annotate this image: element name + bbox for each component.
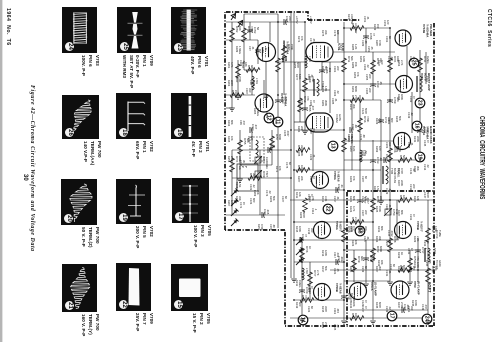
C157 label: [239, 160, 246, 167]
C197 label: [409, 56, 416, 63]
svg-text:68K: 68K: [380, 226, 384, 231]
C119 label: [333, 308, 340, 315]
wire horizontal y318: [290, 317, 430, 319]
resistor R746: [300, 246, 313, 262]
waveform callout 12: [264, 113, 274, 123]
R353 label: [353, 72, 360, 79]
R303 label: [349, 176, 356, 183]
svg-text:.01: .01: [334, 98, 338, 102]
svg-text:.05: .05: [412, 56, 416, 60]
svg-text:270K: 270K: [238, 76, 242, 82]
svg-text:3300: 3300: [324, 306, 328, 312]
C169 label: [265, 112, 272, 119]
svg-text:390K: 390K: [324, 100, 328, 106]
R209 label: [299, 212, 306, 219]
R301 label: [395, 146, 402, 153]
waveform photo 17: V705 PIN 3: [172, 178, 209, 223]
junction dot 10: [427, 269, 429, 271]
waveform photo 20: PW 700 TERM.(Z): [61, 179, 97, 225]
tube V706B half 6GY7 B-Y amp: [395, 222, 412, 239]
svg-text:270K: 270K: [400, 302, 404, 308]
svg-text:120: 120: [378, 146, 382, 151]
wire vertical x232 lower: [231, 150, 233, 215]
svg-text:220: 220: [336, 66, 340, 71]
diode CR706 AFPC det: [231, 209, 239, 217]
svg-text:Y: Y: [244, 166, 248, 168]
R231 label: [377, 226, 384, 233]
svg-text:6JU8: 6JU8: [341, 43, 345, 51]
R273 label: [297, 36, 304, 43]
C111 label: [309, 176, 316, 182]
svg-text:1.5K: 1.5K: [238, 182, 242, 188]
C143 label: [407, 248, 414, 255]
resistor R706: [276, 56, 289, 72]
junction dot 17: [293, 299, 295, 301]
C255 label: [365, 74, 372, 81]
R307 label: [397, 180, 404, 187]
R277 label: [295, 74, 302, 81]
R221 label: [349, 196, 356, 203]
R279 label: [297, 100, 304, 107]
wire vertical x407 T5-T6: [406, 46, 408, 76]
junction dot 16: [419, 159, 421, 161]
ground at x428: [425, 321, 431, 324]
svg-text:.01: .01: [388, 270, 392, 274]
wire horizontal y281: [344, 280, 390, 282]
svg-text:1MEG: 1MEG: [298, 280, 302, 287]
R263 label: [227, 80, 234, 87]
label V702B type: [280, 93, 288, 107]
resistor R761: [230, 90, 244, 97]
R192 label: [227, 120, 234, 127]
svg-text:10K: 10K: [354, 313, 358, 318]
waveform callout 17: [387, 311, 397, 321]
svg-text:680K: 680K: [354, 86, 358, 92]
waveform photo 25: V709 PIN 1: [117, 7, 151, 53]
C229 label: [385, 204, 392, 211]
svg-text:82K: 82K: [352, 196, 356, 201]
pot R729 tint control: [254, 170, 269, 178]
waveform callout 19: [415, 152, 425, 162]
svg-text:½ 6EA8: ½ 6EA8: [338, 283, 342, 294]
svg-text:.005: .005: [284, 56, 288, 62]
R189 label: [235, 46, 242, 54]
resistor R709: [303, 76, 316, 92]
wire horizontal y200: [290, 199, 433, 201]
C129 label: [361, 300, 368, 307]
resistor R767: [350, 23, 364, 34]
waveform callout 16: [412, 121, 422, 131]
tube V709 6GU7 R-Y amplifier: [391, 281, 409, 299]
svg-text:27K: 27K: [354, 95, 358, 100]
capacitor C713: [370, 157, 383, 164]
svg-text:56K: 56K: [272, 196, 276, 201]
C243 label: [409, 266, 416, 273]
wire vertical x381: [380, 100, 382, 200]
wire horizontal y122: [294, 121, 306, 123]
wire vertical x300: [299, 62, 301, 122]
wire bus vertical 2: [293, 13, 295, 278]
svg-text:220: 220: [412, 184, 416, 189]
svg-text:.02: .02: [336, 324, 340, 328]
capacitor C709: [387, 97, 400, 104]
svg-text:220: 220: [368, 74, 372, 79]
svg-text:47K: 47K: [352, 176, 356, 181]
R333 label: [375, 236, 382, 243]
svg-text:2.2K: 2.2K: [354, 217, 358, 223]
R321 label: [321, 322, 328, 329]
ground at x240: [237, 179, 243, 182]
wire horizontal y170: [294, 169, 381, 171]
svg-text:.047: .047: [390, 56, 394, 62]
svg-text:1.8K: 1.8K: [324, 86, 328, 92]
svg-text:.05: .05: [428, 260, 432, 264]
wire vertical x264 T2 plate: [263, 80, 265, 94]
svg-text:.01: .01: [366, 236, 370, 240]
label V702A type: [282, 41, 290, 55]
svg-text:.01: .01: [366, 16, 370, 20]
svg-text:8200: 8200: [302, 212, 306, 218]
C239 label: [361, 266, 368, 273]
svg-text:12K: 12K: [352, 266, 356, 271]
R237 label: [397, 168, 404, 175]
resistor R714: [342, 136, 355, 152]
svg-text:120: 120: [284, 97, 288, 102]
svg-text:.05: .05: [426, 240, 430, 244]
svg-text:47: 47: [304, 234, 308, 237]
wire horizontal y60 mid: [322, 61, 344, 63]
R327 label: [397, 210, 404, 217]
svg-text:120K: 120K: [324, 250, 328, 256]
junction dot 13: [304, 21, 306, 23]
C175 label: [285, 162, 292, 169]
svg-text:+275V: +275V: [295, 16, 299, 24]
wire vertical x338: [337, 30, 339, 43]
R196 label: [235, 182, 242, 189]
wire vertical x310 low: [309, 262, 311, 300]
wire vertical x270 T1 plate: [269, 22, 271, 42]
C165 label: [239, 60, 246, 67]
svg-text:120K: 120K: [362, 56, 366, 62]
svg-text:(R-Y) AMP: (R-Y) AMP: [416, 281, 420, 295]
svg-text:470: 470: [304, 295, 308, 300]
svg-text:.02: .02: [310, 74, 314, 78]
ground at V702A cathode: [263, 96, 269, 99]
svg-text:½ 6GH8A: ½ 6GH8A: [426, 24, 430, 38]
C193 label: [363, 64, 370, 71]
R203 label: [269, 196, 276, 203]
dash-dot shield border right side: [433, 23, 435, 326]
tube V708A half 6EA8 color killer: [312, 172, 329, 189]
C249 label: [385, 306, 392, 313]
svg-text:220K: 220K: [416, 136, 420, 142]
svg-text:L704: L704: [305, 268, 309, 274]
wire horizontal y62: [275, 61, 306, 63]
C209 label: [385, 188, 392, 195]
svg-text:3.9K 2W: 3.9K 2W: [354, 23, 358, 34]
svg-text:27K: 27K: [230, 156, 234, 161]
svg-text:.05: .05: [364, 40, 368, 44]
waveform photo 15: V705 PIN 2: [171, 264, 208, 311]
capacitor C707: [357, 197, 370, 204]
resistor R749: [352, 256, 365, 272]
coil L705 slug inside dashed box: [256, 140, 258, 158]
ground at R702: [229, 108, 235, 111]
C171 label: [239, 202, 246, 209]
svg-text:1MEG: 1MEG: [426, 56, 430, 64]
wire vertical x266 T1 cathode: [265, 62, 267, 95]
C163 label: [333, 90, 340, 97]
junction dot 24: [293, 239, 295, 241]
C213 label: [423, 164, 430, 171]
R257 label: [321, 66, 328, 73]
capacitor C703: [275, 97, 288, 104]
junction dot 7: [389, 199, 391, 201]
waveform callout 18: [355, 226, 365, 236]
C159 label: [281, 56, 288, 63]
wire horizontal y22: [226, 21, 305, 23]
svg-text:680: 680: [252, 198, 256, 203]
svg-text:.22: .22: [379, 157, 383, 161]
ground at x390: [387, 282, 393, 285]
svg-text:47K: 47K: [356, 72, 360, 77]
resistor R756: [398, 195, 412, 202]
wire vertical x302 low: [301, 238, 303, 318]
svg-text:TUBE: TUBE: [438, 230, 442, 237]
ground at C705: [302, 131, 308, 134]
coil L701 chroma take-off: [252, 76, 259, 90]
C177 label: [309, 38, 316, 45]
svg-text:V701: V701: [337, 43, 341, 51]
resistor R703: [242, 26, 255, 42]
R311 label: [295, 192, 302, 199]
waveform photo 16: V701 PIN 2: [171, 93, 207, 139]
junction dot 27: [389, 159, 391, 161]
dash-dot shield border bottom: [285, 230, 433, 326]
svg-text:1.2K: 1.2K: [354, 44, 358, 50]
svg-text:33K: 33K: [238, 196, 242, 201]
diode CR703 killer det: [296, 258, 304, 266]
svg-text:.015: .015: [266, 209, 270, 215]
R299 label: [375, 146, 382, 153]
ground at x381: [378, 201, 384, 204]
resistor R747: [308, 270, 321, 286]
svg-text:.02: .02: [388, 240, 392, 244]
pot R720 chroma control: [254, 156, 269, 169]
R243 label: [413, 196, 420, 203]
R271 label: [275, 166, 282, 173]
svg-text:220: 220: [364, 210, 368, 215]
capacitor C733: [250, 124, 258, 133]
C105 label: [283, 130, 290, 137]
ground at C707: [357, 227, 363, 230]
resistor R704: [236, 62, 249, 78]
R285 label: [351, 44, 358, 51]
C227 label: [361, 210, 368, 217]
svg-text:5600: 5600: [252, 80, 256, 86]
waveform photo 19: V702 PIN 5: [116, 179, 151, 224]
tube V701 6JU8 X demodulator: [306, 43, 333, 62]
capacitor C708: [363, 33, 376, 40]
R205 label: [297, 150, 304, 157]
capacitor C715: [363, 255, 376, 262]
svg-text:10K: 10K: [238, 26, 242, 31]
svg-text:3.9K 2W: 3.9K 2W: [350, 14, 354, 24]
transformer T701 burst: [417, 76, 430, 92]
resistor R759: [300, 295, 314, 302]
resistor R766: [398, 155, 412, 162]
ground at x302: [299, 319, 305, 322]
R335 label: [349, 266, 356, 273]
C133 label: [387, 118, 394, 125]
diode CR702 phase det: [296, 248, 304, 256]
wire horizontal y90 mid: [300, 89, 330, 91]
wire vertical x360: [359, 95, 361, 226]
svg-text:8200: 8200: [379, 246, 383, 252]
svg-text:150: 150: [376, 24, 380, 29]
wire horizontal y130: [294, 129, 344, 131]
svg-text:15K: 15K: [354, 62, 358, 67]
svg-text:GATE: GATE: [338, 114, 342, 121]
C113 label: [311, 208, 318, 215]
capacitor C719: [341, 293, 354, 300]
svg-text:½ 6GY7: ½ 6GY7: [338, 221, 342, 232]
C121 label: [361, 108, 368, 115]
junction dot 4: [343, 83, 345, 85]
C233 label: [423, 240, 430, 247]
wire vertical x354 low: [353, 250, 355, 282]
svg-text:150: 150: [234, 90, 238, 95]
resistor R726: [388, 146, 401, 162]
TO label 1: [435, 230, 442, 239]
svg-text:56: 56: [256, 27, 260, 30]
wire horizontal y150: [232, 149, 291, 151]
C223 label: [307, 306, 314, 313]
junction dot 29: [417, 269, 419, 271]
wire horizontal y95: [226, 94, 255, 96]
svg-text:.01: .01: [312, 154, 316, 158]
wire vertical x420: [419, 50, 421, 160]
svg-text:33K: 33K: [324, 30, 328, 35]
ground at bus: [291, 279, 297, 282]
C191 label: [385, 36, 392, 43]
svg-text:680: 680: [390, 118, 394, 123]
right margin: CTC16 Series: [486, 9, 492, 47]
wire vertical x366: [365, 240, 367, 283]
R241 label: [413, 136, 420, 143]
wire vertical x330: [329, 62, 331, 113]
R217 label: [349, 104, 356, 111]
C117 label: [333, 252, 340, 259]
wire horizontal y222: [294, 221, 373, 223]
capacitor C720: [299, 287, 312, 294]
R215 label: [321, 306, 328, 313]
C241 label: [385, 270, 392, 277]
R201 label: [271, 118, 278, 125]
coil L704 osc: [302, 268, 309, 280]
svg-text:470K: 470K: [366, 116, 370, 122]
resistor R754: [350, 313, 364, 320]
wire horizontal y178 left: [232, 177, 291, 179]
test point arrow M33: [229, 12, 238, 21]
wire vertical x244: [243, 14, 245, 70]
svg-text:120: 120: [364, 196, 368, 201]
C115 label: [307, 286, 314, 293]
label V709 type: [413, 281, 420, 295]
C153 label: [383, 20, 390, 27]
resistor R764: [350, 95, 364, 102]
junction dot 3: [293, 169, 295, 171]
svg-text:47: 47: [372, 33, 376, 36]
wire vertical x322 mid: [321, 62, 323, 90]
junction dot 21: [343, 27, 345, 29]
svg-text:2.2K: 2.2K: [416, 236, 420, 242]
diode CR704 AFPC det: [231, 189, 239, 197]
R323 label: [349, 206, 356, 213]
resistor R736: [426, 266, 439, 282]
R283 label: [297, 126, 304, 133]
svg-text:.22: .22: [252, 184, 256, 188]
resistor R728: [388, 236, 401, 252]
resistor R744: [230, 156, 243, 172]
tube V702B half 6GH8A 2nd chroma amp: [255, 94, 273, 112]
svg-text:PULSER: PULSER: [429, 24, 433, 37]
ground at x344: [341, 321, 347, 324]
svg-text:1K: 1K: [400, 252, 404, 255]
C235 label: [361, 226, 368, 233]
svg-text:.01: .01: [251, 46, 255, 50]
junction dot 26: [343, 249, 345, 251]
svg-text:2.7K: 2.7K: [316, 270, 320, 276]
wire bus vertical 1: [290, 13, 292, 278]
wire horizontal y108: [226, 107, 232, 109]
diode CR701 phase det: [296, 238, 304, 246]
resistor R741: [303, 196, 316, 212]
svg-text:GRID: GRID: [438, 260, 442, 267]
C203 label: [385, 142, 392, 149]
wire vertical x397: [396, 200, 398, 240]
wire horizontal y310: [350, 309, 428, 311]
label 6JU8 lower type: [335, 114, 342, 123]
svg-text:560: 560: [324, 66, 328, 71]
svg-text:CHROMA: CHROMA: [265, 157, 269, 169]
waveform callout 22: [323, 204, 333, 214]
svg-text:L702: L702: [308, 56, 312, 62]
svg-text:.01: .01: [340, 184, 344, 188]
svg-text:.02: .02: [364, 150, 368, 154]
figure caption: [29, 85, 35, 252]
resistor R716: [358, 116, 371, 132]
svg-text:6GF7: 6GF7: [427, 282, 432, 293]
svg-text:12K: 12K: [298, 192, 302, 197]
svg-text:.01: .01: [336, 196, 340, 200]
svg-text:120: 120: [336, 30, 340, 35]
capacitor C731: [262, 209, 270, 218]
svg-text:330: 330: [248, 88, 252, 93]
svg-text:100K: 100K: [416, 262, 420, 268]
svg-text:56K: 56K: [350, 56, 354, 61]
+275V label: [295, 16, 299, 24]
svg-text:.68: .68: [354, 124, 358, 128]
C155 label: [269, 224, 276, 231]
R247 label: [347, 14, 354, 24]
waveform photo 26: PW 700 TERM.(AA): [62, 95, 99, 139]
C205 label: [407, 142, 414, 149]
dash-dot shield border top-left: [226, 12, 308, 20]
R223 label: [351, 240, 358, 247]
junction dot 14: [343, 99, 345, 101]
R313 label: [321, 196, 328, 203]
